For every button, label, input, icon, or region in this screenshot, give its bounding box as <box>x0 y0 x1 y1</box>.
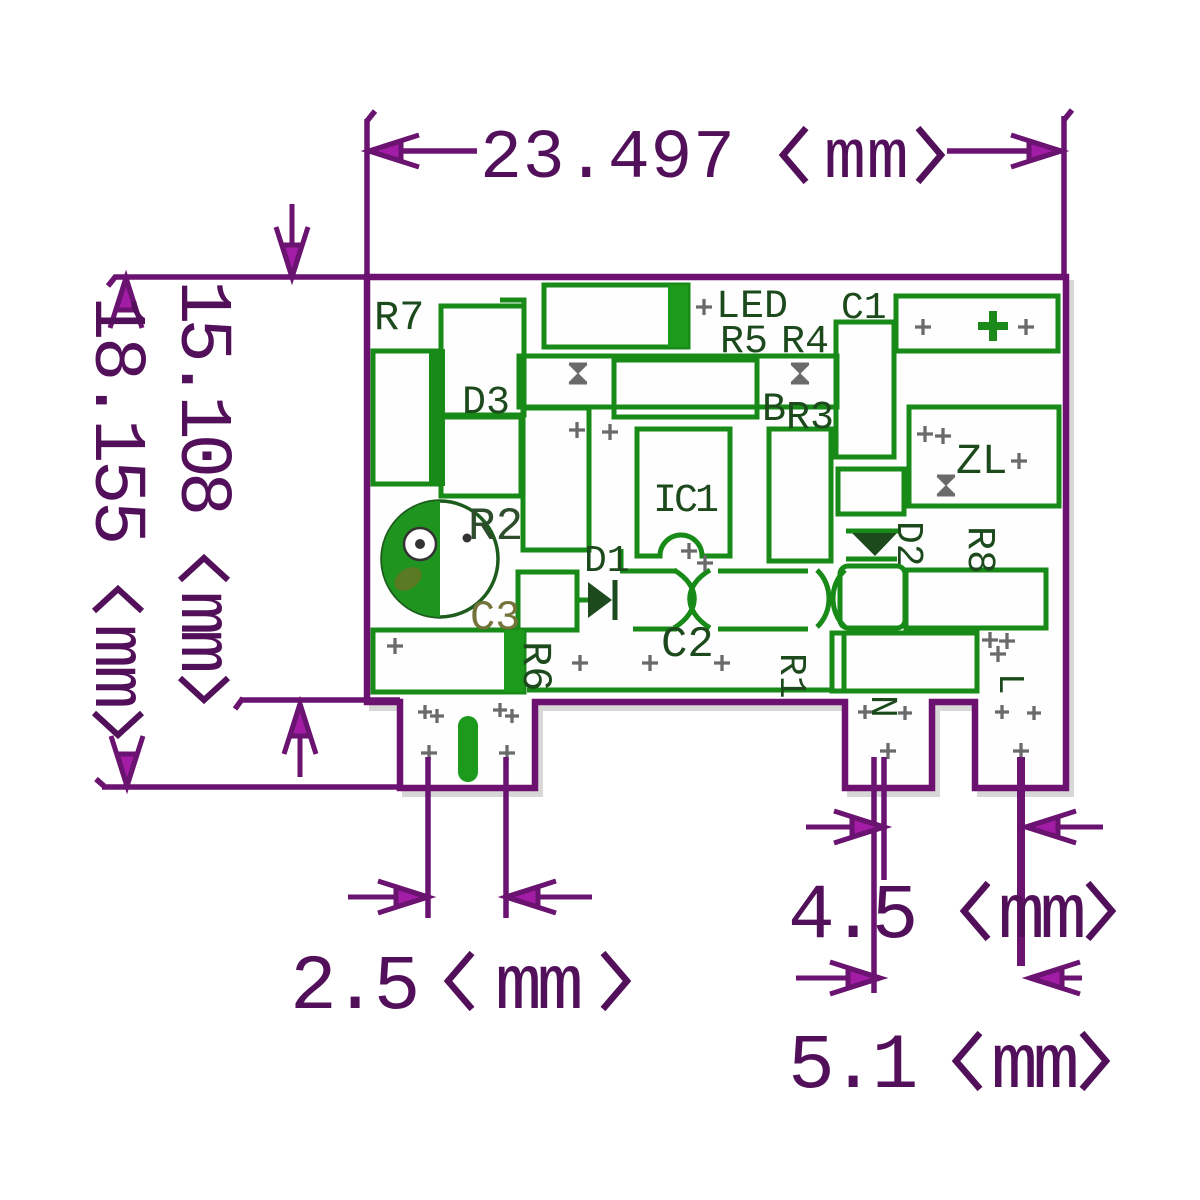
svg-text:mm: mm <box>73 624 157 706</box>
chevron 18.155 rotated <box>94 589 142 735</box>
wire bottom b <box>718 627 808 632</box>
svg-text:mm: mm <box>159 591 243 670</box>
dimension line 23.497 <box>369 148 477 154</box>
pad marker L top c <box>990 646 1006 662</box>
chevrons <box>94 128 1112 1089</box>
arrow 5.1 right <box>1030 962 1082 994</box>
pad marker tabA small c <box>493 703 507 717</box>
op-amp U1 IC1 outline <box>637 429 730 556</box>
pad marker tabA hole a <box>421 745 437 761</box>
LED body <box>544 285 688 347</box>
arrow 2.5 left <box>348 881 428 913</box>
pad marker strip c <box>714 655 730 671</box>
wire L-stub <box>500 300 524 356</box>
pad marker IC notch b <box>697 555 713 571</box>
svg-text:D3: D3 <box>462 381 510 426</box>
transistor Q1 curves <box>674 570 694 628</box>
pad marker ZL a <box>917 426 933 442</box>
pad marker ZL b <box>935 428 951 444</box>
extension line left top <box>114 274 367 280</box>
pad marker cap left <box>915 319 931 335</box>
pad marker cap right <box>1018 319 1034 335</box>
svg-text:mm: mm <box>991 1023 1076 1111</box>
pad block under D3 <box>441 417 521 496</box>
svg-text:2.5: 2.5 <box>290 944 416 1032</box>
pad marker cap plus green <box>978 311 1008 341</box>
component ZL body <box>909 407 1059 506</box>
arrows <box>110 135 1103 994</box>
pad marker L right <box>1027 706 1041 720</box>
arrow 15.108 bottom <box>284 704 316 777</box>
chevron 2.5 <box>448 953 472 1009</box>
capacitor top-right body <box>896 296 1058 351</box>
resistor R6 filled strip <box>504 630 524 692</box>
svg-text:ZL: ZL <box>956 437 1008 486</box>
pad marker L hole <box>1013 743 1029 759</box>
dimension drawing <box>96 110 1072 993</box>
transistor Q2 curves <box>817 570 829 627</box>
svg-text:R1: R1 <box>769 653 812 699</box>
extension line 2.5 right <box>503 757 509 918</box>
pad marker N right <box>898 706 912 720</box>
svg-text:C1: C1 <box>841 287 887 330</box>
diode D2 bars <box>846 529 901 534</box>
arrow 5.1 left <box>796 962 880 994</box>
svg-text:B: B <box>762 388 786 433</box>
resistor R7 body <box>373 351 436 484</box>
svg-text:D1: D1 <box>584 540 630 583</box>
pad marker L top b <box>999 633 1015 649</box>
svg-text:15.108: 15.108 <box>159 280 243 512</box>
pad block T1 <box>523 408 589 550</box>
extension line left bottom <box>102 784 400 790</box>
svg-text:5.1: 5.1 <box>788 1023 916 1111</box>
extension line left mid <box>240 697 400 703</box>
anchor marker band left <box>569 364 587 383</box>
pad marker strip a <box>572 655 588 671</box>
pad marker T1 a <box>569 422 585 438</box>
wire top b <box>718 569 808 574</box>
pad marker L top a <box>982 632 998 648</box>
extension line N a <box>871 757 877 993</box>
chevron 4.5 <box>964 883 988 939</box>
extension line top-left <box>364 119 370 277</box>
svg-text:C3: C3 <box>470 594 520 642</box>
svg-text:mm: mm <box>824 120 909 199</box>
svg-text:R8: R8 <box>956 526 1001 574</box>
pad marker N left <box>858 705 872 719</box>
slot pad <box>458 716 478 782</box>
dim text 18.155 rotated <box>73 296 157 706</box>
wire top a <box>620 569 677 574</box>
extension line N b <box>881 757 887 880</box>
component labels <box>374 285 1030 718</box>
wire fill between R7 and D3 <box>429 349 445 486</box>
svg-text:mm: mm <box>495 944 580 1032</box>
pad block D1 left <box>518 572 577 630</box>
svg-text:D2: D2 <box>886 521 929 567</box>
svg-text:C2: C2 <box>661 620 714 670</box>
svg-text:R4: R4 <box>781 320 829 365</box>
arrow 4.5 right <box>1026 811 1103 843</box>
extension line 2.5 left <box>425 757 431 918</box>
pad marker ZL c <box>1011 453 1027 469</box>
pad marker tabA small a <box>418 705 432 719</box>
svg-text:IC1: IC1 <box>653 479 718 524</box>
diode D3 body <box>441 306 524 415</box>
pad marker IC notch a <box>681 543 697 559</box>
arrow 18.155 top <box>110 278 142 328</box>
pad block C1c <box>840 566 905 628</box>
pad marker T1 b <box>602 424 618 440</box>
arrow 2.5 right <box>506 881 592 913</box>
diode D2 triangle <box>852 533 897 556</box>
resistor R8 body <box>906 570 1046 628</box>
resistor band outer <box>519 356 837 407</box>
resistor R3 body <box>769 429 831 561</box>
PCB outline <box>367 277 1066 788</box>
svg-text:23.497: 23.497 <box>480 120 736 199</box>
pad marker tabA small d <box>505 709 519 723</box>
chevron 23.497 <box>783 128 806 182</box>
svg-text:R5: R5 <box>720 320 768 365</box>
pad cross markers <box>387 299 1041 761</box>
svg-text:mm: mm <box>998 873 1083 961</box>
board shadow <box>372 283 1071 794</box>
svg-text:R3: R3 <box>786 396 834 441</box>
dimension texts <box>73 120 1083 1111</box>
pad marker N hole <box>880 743 896 759</box>
arrow 18.155 bottom <box>111 736 143 786</box>
pad marker LED <box>696 299 712 315</box>
arrow dim23 left <box>369 135 419 167</box>
svg-text:4.5: 4.5 <box>788 873 914 961</box>
pad marker L left <box>995 705 1009 719</box>
svg-text:R6: R6 <box>511 641 559 691</box>
potentiometer body <box>382 501 498 617</box>
arrow 15.108 top <box>276 204 308 277</box>
wire rail <box>527 688 833 693</box>
pad marker R6 <box>387 638 403 654</box>
arrow 4.5 left <box>806 811 884 843</box>
pad block C1b <box>838 469 904 514</box>
diode D1 triangle <box>588 582 612 618</box>
pad block N <box>832 633 977 691</box>
anchor marker ZL <box>937 476 955 495</box>
svg-text:L: L <box>989 673 1030 695</box>
wire D1 left <box>577 598 588 603</box>
anchor marker band right <box>791 364 809 383</box>
extension line L <box>1017 757 1025 966</box>
chevron 5.1 <box>956 1033 980 1089</box>
capacitor C1 body <box>836 322 894 457</box>
dim text 15.108 rotated <box>159 280 243 670</box>
resistor R6 body <box>373 630 524 692</box>
resistor band inner <box>614 360 757 417</box>
chevron 15.108 rotated <box>180 558 228 700</box>
anchor markers <box>569 364 955 495</box>
wire bottom a <box>633 627 677 632</box>
wire N inner <box>842 635 847 689</box>
svg-text:R7: R7 <box>374 294 424 342</box>
svg-text:18.155: 18.155 <box>73 296 157 542</box>
LED filled strip <box>668 285 688 347</box>
arrow dim23 right <box>1011 135 1061 167</box>
extension line top-right <box>1061 116 1067 278</box>
pad marker tabA small b <box>430 709 444 723</box>
svg-text:R2: R2 <box>468 501 523 553</box>
pad marker tabA hole b <box>499 745 515 761</box>
pad marker strip b <box>642 655 658 671</box>
